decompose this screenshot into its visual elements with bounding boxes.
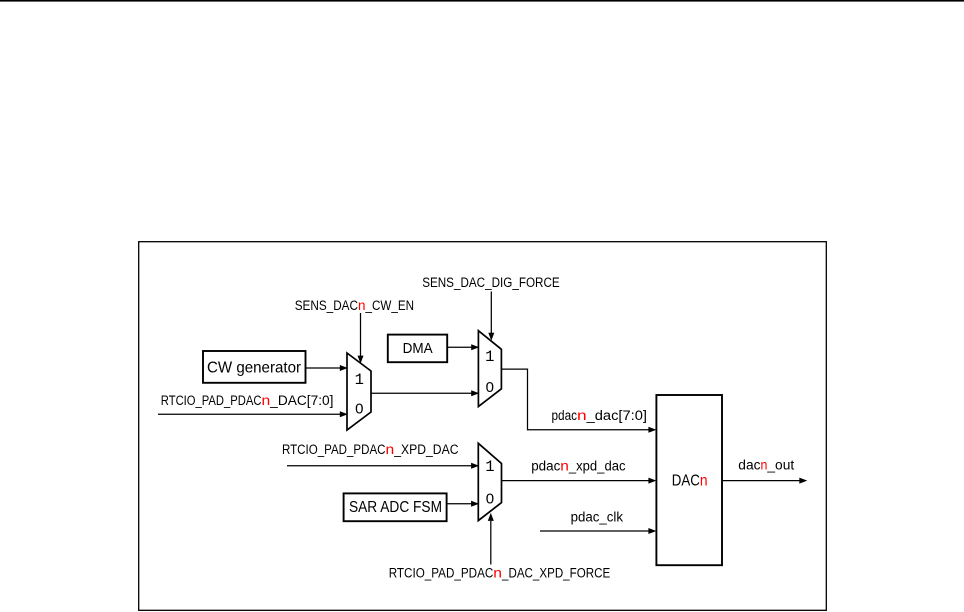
mux U1 <box>347 353 371 430</box>
svg-text:0: 0 <box>486 490 494 507</box>
svg-text:1: 1 <box>355 371 364 389</box>
svg-text:_DAC[7:0]: _DAC[7:0] <box>269 393 333 408</box>
wire: mux U1 output to mux U2 input 0 <box>371 390 479 396</box>
svg-text:dac: dac <box>738 458 760 473</box>
net label RTCIO_PAD_PDACn_DAC_XPD_FORCE <box>389 565 611 580</box>
net label pdac_clk <box>571 510 624 525</box>
block: SAR ADC FSM <box>344 493 447 521</box>
mux U2 <box>478 331 501 407</box>
svg-text:RTCIO_PAD_PDAC: RTCIO_PAD_PDAC <box>389 565 494 580</box>
svg-text:0: 0 <box>355 400 363 417</box>
svg-text:RTCIO_PAD_PDAC: RTCIO_PAD_PDAC <box>161 393 262 408</box>
svg-text:CW generator: CW generator <box>207 359 302 376</box>
svg-text:SAR ADC FSM: SAR ADC FSM <box>349 499 442 516</box>
wire: RTCIO_PAD_PDACn_XPD_DAC to mux U3 input 1 <box>287 463 479 469</box>
svg-text:n: n <box>386 442 395 457</box>
net label pdacn_xpd_dac <box>531 459 626 474</box>
svg-text:n: n <box>560 459 569 474</box>
svg-text:RTCIO_PAD_PDAC: RTCIO_PAD_PDAC <box>282 442 386 457</box>
net label RTCIO_PAD_PDACn_DAC[7:0] <box>161 393 334 408</box>
block: DACn <box>656 395 722 565</box>
block: CW generator <box>203 351 306 383</box>
svg-text:n: n <box>493 565 502 580</box>
svg-text:DMA: DMA <box>403 340 433 357</box>
svg-text:n: n <box>262 393 271 408</box>
wire: DMA to mux U2 input 1 <box>447 344 479 350</box>
wire: pdac_clk to DACn <box>540 528 656 534</box>
svg-text:_dac[7:0]: _dac[7:0] <box>586 408 647 423</box>
svg-text:n: n <box>761 458 768 473</box>
diagram frame <box>139 242 827 611</box>
svg-text:_DAC_XPD_FORCE: _DAC_XPD_FORCE <box>501 565 610 580</box>
wire: SENS_DACn_CW_EN select into mux U1 <box>358 313 364 364</box>
svg-text:n: n <box>358 298 366 313</box>
svg-text:n: n <box>577 408 587 423</box>
net label dacn_out <box>738 458 794 473</box>
wire: CW generator to mux U1 input 1 <box>306 365 348 371</box>
svg-text:DAC: DAC <box>672 473 700 490</box>
net label RTCIO_PAD_PDACn_XPD_DAC <box>282 442 459 457</box>
svg-text:pdac: pdac <box>531 459 560 474</box>
wire: SENS_DAC_DIG_FORCE select into mux U2 <box>488 292 494 341</box>
wire: RTCIO_PAD_PDACn_DAC[7:0] to mux U1 input 0 <box>158 411 348 417</box>
svg-text:_CW_EN: _CW_EN <box>365 298 414 313</box>
svg-text:n: n <box>700 473 708 490</box>
wire: RTCIO_PAD_PDACn_DAC_XPD_FORCE select into mux U3 <box>488 513 494 565</box>
net label SENS_DAC_DIG_FORCE <box>422 275 560 290</box>
svg-text:SENS_DAC: SENS_DAC <box>295 298 359 313</box>
svg-text:1: 1 <box>485 458 494 476</box>
wire: mux U2 output pdacn_dac[7:0] to DACn <box>501 369 656 433</box>
net label SENS_DACn_CW_EN <box>295 298 414 313</box>
block: DMA <box>388 335 447 363</box>
svg-text:1: 1 <box>485 348 494 366</box>
net label pdacn_dac[7:0] <box>552 408 648 423</box>
svg-text:_xpd_dac: _xpd_dac <box>568 459 626 474</box>
svg-text:0: 0 <box>486 379 494 396</box>
mux U3 <box>478 443 501 520</box>
wire: SAR ADC FSM to mux U3 input 0 <box>447 501 480 507</box>
top page rule <box>0 0 964 2</box>
svg-text:SENS_DAC_DIG_FORCE: SENS_DAC_DIG_FORCE <box>422 275 560 290</box>
wire: mux U3 output pdacn_xpd_dac to DACn <box>502 478 657 484</box>
svg-text:pdac: pdac <box>552 408 578 423</box>
svg-text:pdac_clk: pdac_clk <box>571 510 624 525</box>
svg-text:_XPD_DAC: _XPD_DAC <box>393 442 458 457</box>
svg-text:_out: _out <box>766 458 794 473</box>
wire: DACn output dacn_out <box>722 478 807 484</box>
